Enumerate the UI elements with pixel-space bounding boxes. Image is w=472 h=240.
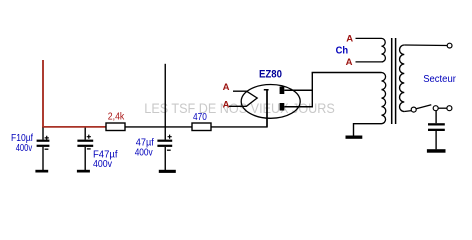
wire bottom plate lead: [284, 106, 312, 108]
transformer primary winding (7 arcs): [400, 45, 405, 112]
terminal circle mains bottom: [447, 106, 452, 111]
svg-text:A: A: [346, 33, 353, 44]
chassis bar below line capacitor: [427, 149, 446, 153]
wire C1 bottom stem: [42, 147, 44, 170]
C3 plus sign: [168, 135, 172, 139]
wire top plate lead: [284, 89, 312, 91]
terminal circle switch throw: [433, 106, 438, 111]
wire C1 top stem: [42, 128, 44, 140]
svg-text:A: A: [223, 99, 230, 110]
ground of HT winding: [346, 136, 363, 139]
wire anode bus to HT winding: [312, 72, 382, 74]
terminal circle switch pole: [411, 107, 416, 112]
capacitor C1 F10uf plates: [37, 140, 50, 147]
C2 plus sign: [87, 135, 91, 139]
svg-text:LES TSF DE NOS VIEUX JOURS: LES TSF DE NOS VIEUX JOURS: [144, 100, 334, 116]
wire heater winding bottom lead: [356, 61, 382, 63]
transformer heater winding (3 arcs): [382, 38, 386, 62]
svg-text:Secteur: Secteur: [423, 74, 456, 85]
svg-text:A: A: [223, 82, 230, 93]
ground below C3: [159, 170, 176, 173]
C2 minus sign: [87, 148, 91, 150]
wire red horizontal to R 2,4k: [42, 126, 106, 128]
wire primary top lead: [404, 44, 447, 47]
anode plate bottom of EZ80: [280, 103, 285, 111]
wire heater winding top lead: [356, 37, 382, 39]
anode plate top of EZ80: [280, 87, 285, 95]
cathode of EZ80: [264, 90, 269, 127]
wire HT winding bottom lead to ground: [354, 124, 382, 136]
svg-text:2,4k: 2,4k: [108, 112, 125, 123]
svg-text:Ch: Ch: [336, 46, 349, 57]
wire B+ rail from 470 to cathode riser: [211, 90, 267, 127]
svg-text:A: A: [346, 57, 353, 68]
wire C2 bottom stem: [84, 147, 86, 170]
op tube U1 EZ80 envelope: [241, 85, 300, 119]
resistor R1 2,4k: [106, 123, 125, 131]
ground below C2: [77, 170, 90, 173]
wire primary bottom lead: [404, 110, 411, 113]
wire long vertical drop to C3 node: [164, 64, 166, 140]
resistor R2 470: [192, 123, 211, 131]
transformer core: [391, 38, 393, 124]
svg-text:400v: 400v: [93, 159, 112, 170]
wire line capacitor bottom stem: [435, 131, 437, 149]
capacitor C2 F47uf plates: [77, 140, 93, 147]
svg-text:400v: 400v: [16, 143, 33, 154]
wire C3 bottom stem: [164, 147, 166, 170]
wire switch to mains terminal: [438, 107, 447, 109]
wire C2 top stem: [84, 128, 86, 140]
wire anode bus vertical: [311, 73, 313, 108]
heater filament of EZ80: [229, 91, 257, 106]
capacitor C3 47uf plates: [157, 140, 172, 147]
line capacitor plates: [428, 123, 445, 131]
svg-text:EZ80: EZ80: [259, 69, 282, 81]
terminal circle mains top: [447, 43, 452, 48]
wire red vertical feed: [42, 60, 44, 128]
wire line capacitor drop: [435, 111, 437, 124]
ground below C1: [35, 170, 48, 173]
svg-text:400v: 400v: [135, 148, 153, 159]
C3 minus sign: [167, 149, 171, 151]
C1 minus sign: [45, 148, 49, 150]
C1 plus sign: [45, 136, 49, 140]
transformer HT winding (6 arcs): [382, 73, 386, 124]
svg-text:470: 470: [193, 112, 207, 123]
wire B+ rail between resistors: [125, 126, 192, 128]
switch blade: [416, 105, 431, 109]
